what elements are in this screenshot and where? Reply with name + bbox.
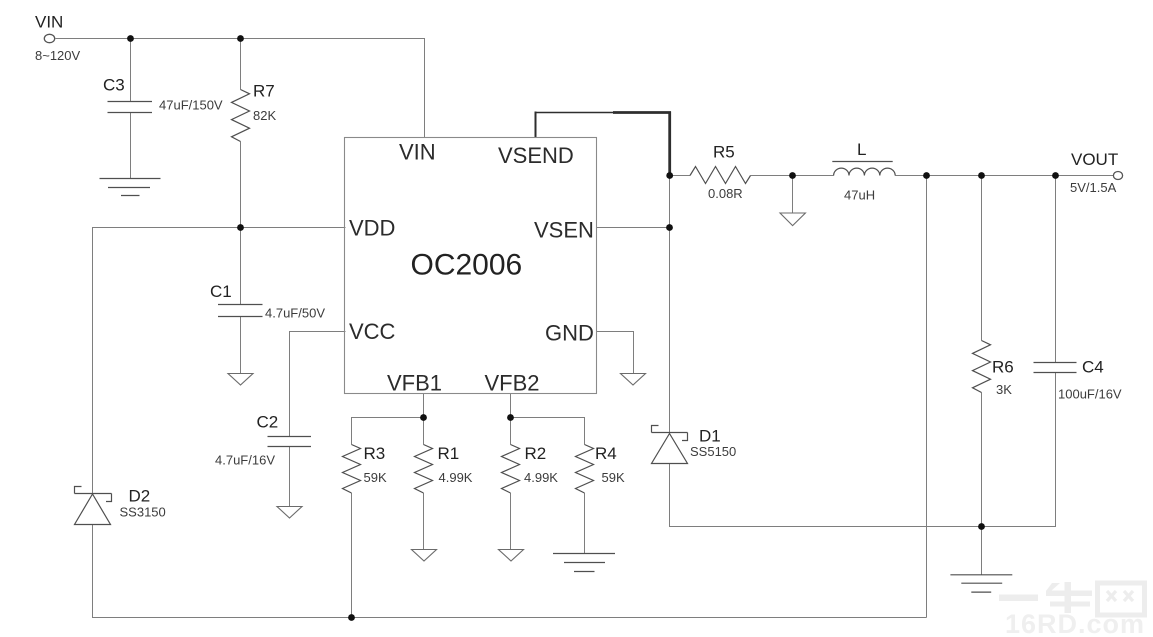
terminal VIN [44, 34, 54, 42]
watermark [999, 582, 1145, 637]
op-amp U1 pin labels [349, 140, 594, 396]
svg-text:R6: R6 [992, 358, 1014, 377]
wire: GND pin to ground arrow [597, 332, 634, 374]
node: VDD / R7 / C1 [237, 224, 244, 231]
resistor R7 labels [253, 82, 276, 124]
svg-text:VIN: VIN [399, 140, 436, 165]
svg-text:D2: D2 [129, 487, 151, 506]
wire: output return drop at x=926 [926, 176, 928, 618]
ground arrow at C2 [277, 507, 302, 519]
node: switch node at R5 [666, 172, 673, 179]
resistor R4 labels [595, 444, 625, 485]
wire: C1 top lead [240, 228, 242, 305]
svg-text:GND: GND [545, 321, 594, 346]
wire: R4 bottom lead [584, 493, 586, 554]
svg-text:4.7uF/50V: 4.7uF/50V [265, 306, 325, 321]
resistor R2 labels [524, 444, 558, 485]
svg-text:L: L [857, 140, 866, 159]
svg-text:C3: C3 [103, 76, 125, 95]
wire: C3 bottom lead to ground [130, 113, 132, 179]
svg-text:R2: R2 [525, 444, 547, 463]
ground (chassis) at C3 [100, 179, 161, 196]
svg-text:SS5150: SS5150 [690, 444, 736, 459]
wire: VFB2 pin stub [510, 394, 512, 418]
node: R6 tap on VOUT rail [978, 172, 985, 179]
wire: R2 bottom lead [510, 493, 512, 550]
wire: R6 bottom lead [981, 393, 983, 527]
node: R7 tap on VIN rail [237, 35, 244, 42]
resistor R6 [973, 341, 991, 393]
svg-text:R7: R7 [253, 82, 275, 101]
svg-text:16RD.com: 16RD.com [1005, 609, 1145, 637]
svg-text:R4: R4 [595, 444, 617, 463]
node: VSEN tap [666, 224, 673, 231]
node: R6 bottom / ground bus [978, 523, 985, 530]
svg-text:VSEND: VSEND [498, 143, 574, 168]
wire: R3 bottom lead to ground rail [351, 493, 353, 618]
resistor R7 [232, 90, 250, 142]
wire: R6 top lead [981, 176, 983, 341]
wire: R7 top lead [240, 39, 242, 90]
svg-text:47uH: 47uH [844, 188, 875, 203]
op-amp U1 : IC body OC2006 [345, 138, 597, 394]
capacitor C4 [1034, 363, 1077, 373]
resistor R1 [415, 445, 433, 494]
node: VFB1 junction [420, 414, 427, 421]
svg-text:3K: 3K [996, 382, 1012, 397]
svg-text:59K: 59K [602, 470, 625, 485]
resistor R3 labels [364, 444, 387, 485]
inductor L labels [844, 140, 875, 203]
svg-text:4.99K: 4.99K [524, 470, 558, 485]
ground arrow at R5/L node [780, 213, 805, 226]
svg-text:SS3150: SS3150 [120, 505, 166, 520]
svg-text:VIN: VIN [35, 13, 63, 32]
wire: C3 top lead [130, 39, 132, 102]
wire: R2 top lead [510, 418, 512, 445]
svg-text:R1: R1 [438, 444, 460, 463]
resistor R3 [343, 445, 361, 494]
node: C4 tap on VOUT rail [1052, 172, 1059, 179]
svg-text:VDD: VDD [349, 216, 395, 241]
svg-text:R3: R3 [364, 444, 386, 463]
svg-text:82K: 82K [253, 108, 276, 123]
wire: inductor to VOUT terminal [895, 175, 1113, 177]
ground arrow at R1 [412, 550, 437, 562]
wire: top rail VIN to IC VIN pin [56, 39, 425, 138]
wire: VFB1 pin stub [423, 394, 425, 418]
ground (chassis) at R6 [950, 575, 1012, 592]
svg-text:VFB1: VFB1 [387, 371, 442, 396]
svg-text:C4: C4 [1082, 358, 1104, 377]
wire: R5/L node ground stub [792, 176, 794, 214]
svg-text:C2: C2 [257, 413, 279, 432]
capacitor C4 labels [1058, 358, 1122, 402]
svg-text:0.08R: 0.08R [708, 186, 743, 201]
svg-text:R5: R5 [713, 143, 735, 162]
wire: D1 anode to output ground bus [670, 373, 1056, 527]
capacitor C2 [268, 437, 312, 447]
resistor R2 [502, 445, 520, 494]
node VIN label [35, 13, 81, 64]
wire: VCC to C2 [290, 332, 346, 437]
svg-text:VSEN: VSEN [534, 218, 594, 243]
wire: VFB2 row to R4 [511, 418, 585, 445]
svg-text:100uF/16V: 100uF/16V [1058, 387, 1122, 402]
wire: R1 top lead [423, 418, 425, 445]
resistor R5 labels [708, 143, 743, 202]
wire: R6 ground stub [981, 527, 983, 575]
resistor R5 [690, 167, 751, 184]
capacitor C2 labels [215, 413, 278, 468]
ground (chassis) at R4 [553, 554, 615, 572]
capacitor C1 labels [210, 282, 325, 321]
wire: node to inductor [793, 175, 834, 177]
diode D2 [75, 487, 112, 525]
ground arrow at IC GND [621, 374, 646, 386]
resistor R1 labels [438, 444, 473, 485]
node: C3 tap on VIN rail [127, 35, 134, 42]
wire: D2 cathode lead from VDD rail [92, 228, 94, 494]
svg-text:4.7uF/16V: 4.7uF/16V [215, 453, 275, 468]
ground arrow at C1 [228, 374, 253, 386]
svg-text:D1: D1 [699, 427, 721, 446]
svg-text:47uF/150V: 47uF/150V [159, 98, 223, 113]
svg-text:4.99K: 4.99K [439, 470, 473, 485]
node: VFB2 junction [507, 414, 514, 421]
svg-text:OC2006: OC2006 [411, 249, 523, 282]
svg-text:VCC: VCC [349, 319, 396, 344]
capacitor C3 labels [103, 76, 223, 113]
resistor R6 labels [992, 358, 1014, 398]
node VOUT label [1070, 150, 1118, 195]
diode D1 [652, 426, 688, 464]
ground arrow at R2 [499, 550, 524, 562]
svg-text:VFB2: VFB2 [485, 371, 540, 396]
inductor L [832, 162, 895, 176]
wire: switch node down to D1 [669, 176, 671, 434]
wire: D2 anode to bottom ground rail [93, 525, 927, 618]
VSEND thick wire from IC to switch node [535, 112, 672, 176]
svg-text:8~120V: 8~120V [35, 48, 81, 63]
wire: C4 top lead [1055, 176, 1057, 363]
node: output return tap [923, 172, 930, 179]
node: R5/L junction [789, 172, 796, 179]
wire: VFB1 row to R3 [352, 418, 424, 445]
diode D2 labels [120, 487, 166, 520]
resistor R4 [576, 445, 594, 494]
svg-text:5V/1.5A: 5V/1.5A [1070, 180, 1117, 195]
wire: VSEN pin to switch node [597, 227, 670, 229]
wire: R1 bottom lead [423, 493, 425, 550]
wire: VDD rail from left drop to IC [93, 228, 346, 494]
svg-text:59K: 59K [364, 470, 387, 485]
node: R3 on bottom rail [348, 614, 355, 621]
diode D1 labels [690, 427, 736, 460]
wire: C2 bottom lead [289, 447, 291, 507]
svg-text:C1: C1 [210, 282, 232, 301]
wire: R7 bottom lead to VDD node [240, 142, 242, 228]
capacitor C3 [108, 102, 153, 113]
capacitor C1 [218, 305, 263, 317]
wire: R5 left lead [670, 175, 691, 177]
terminal VOUT [1113, 172, 1122, 180]
wire: C1 bottom lead [240, 317, 242, 374]
wire: R5 right lead [751, 175, 793, 177]
svg-text:VOUT: VOUT [1071, 150, 1118, 169]
